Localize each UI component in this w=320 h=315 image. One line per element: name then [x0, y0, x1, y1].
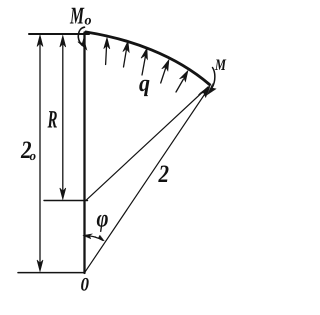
- dimension R line: [62, 40, 64, 194]
- dimension z0 line: [39, 40, 41, 266]
- arrowhead phi right: [95, 235, 104, 241]
- svg-text:φ: φ: [97, 206, 109, 233]
- svg-text:q: q: [139, 71, 150, 97]
- moment M0 curved arrow: [78, 27, 84, 45]
- svg-text:M: M: [69, 4, 85, 30]
- load arrow 2: [124, 49, 127, 67]
- arrowhead z0 top: [37, 35, 43, 47]
- arrowhead R top: [60, 36, 66, 48]
- baseline tick at O: [18, 272, 85, 274]
- load arrow 1: [106, 45, 107, 65]
- line M to O: [85, 92, 207, 273]
- svg-text:R: R: [47, 107, 58, 134]
- arrowhead phi left: [83, 234, 93, 239]
- svg-text:0: 0: [81, 275, 90, 296]
- center tick line at C: [44, 200, 88, 202]
- wire: top horizontal reference line: [29, 33, 89, 35]
- load arrow 3: [142, 56, 146, 75]
- svg-text:M: M: [214, 57, 226, 74]
- angle arc phi: [84, 235, 103, 240]
- arrowhead z0 bottom: [37, 260, 43, 272]
- wire: main vertical axis line: [83, 33, 85, 274]
- svg-text:o: o: [85, 14, 92, 29]
- arc beam: [86, 32, 210, 85]
- moment M curved arrow: [212, 68, 215, 88]
- load arrow 4: [161, 67, 166, 83]
- svg-text:2: 2: [158, 161, 169, 188]
- radius line M to C: [86, 87, 208, 200]
- arrowhead on line at M lower: [198, 88, 209, 98]
- load arrow 5: [176, 79, 184, 92]
- svg-text:o: o: [30, 148, 37, 163]
- arrowhead R bottom: [60, 188, 66, 200]
- arrowhead on line at M upper: [199, 85, 210, 95]
